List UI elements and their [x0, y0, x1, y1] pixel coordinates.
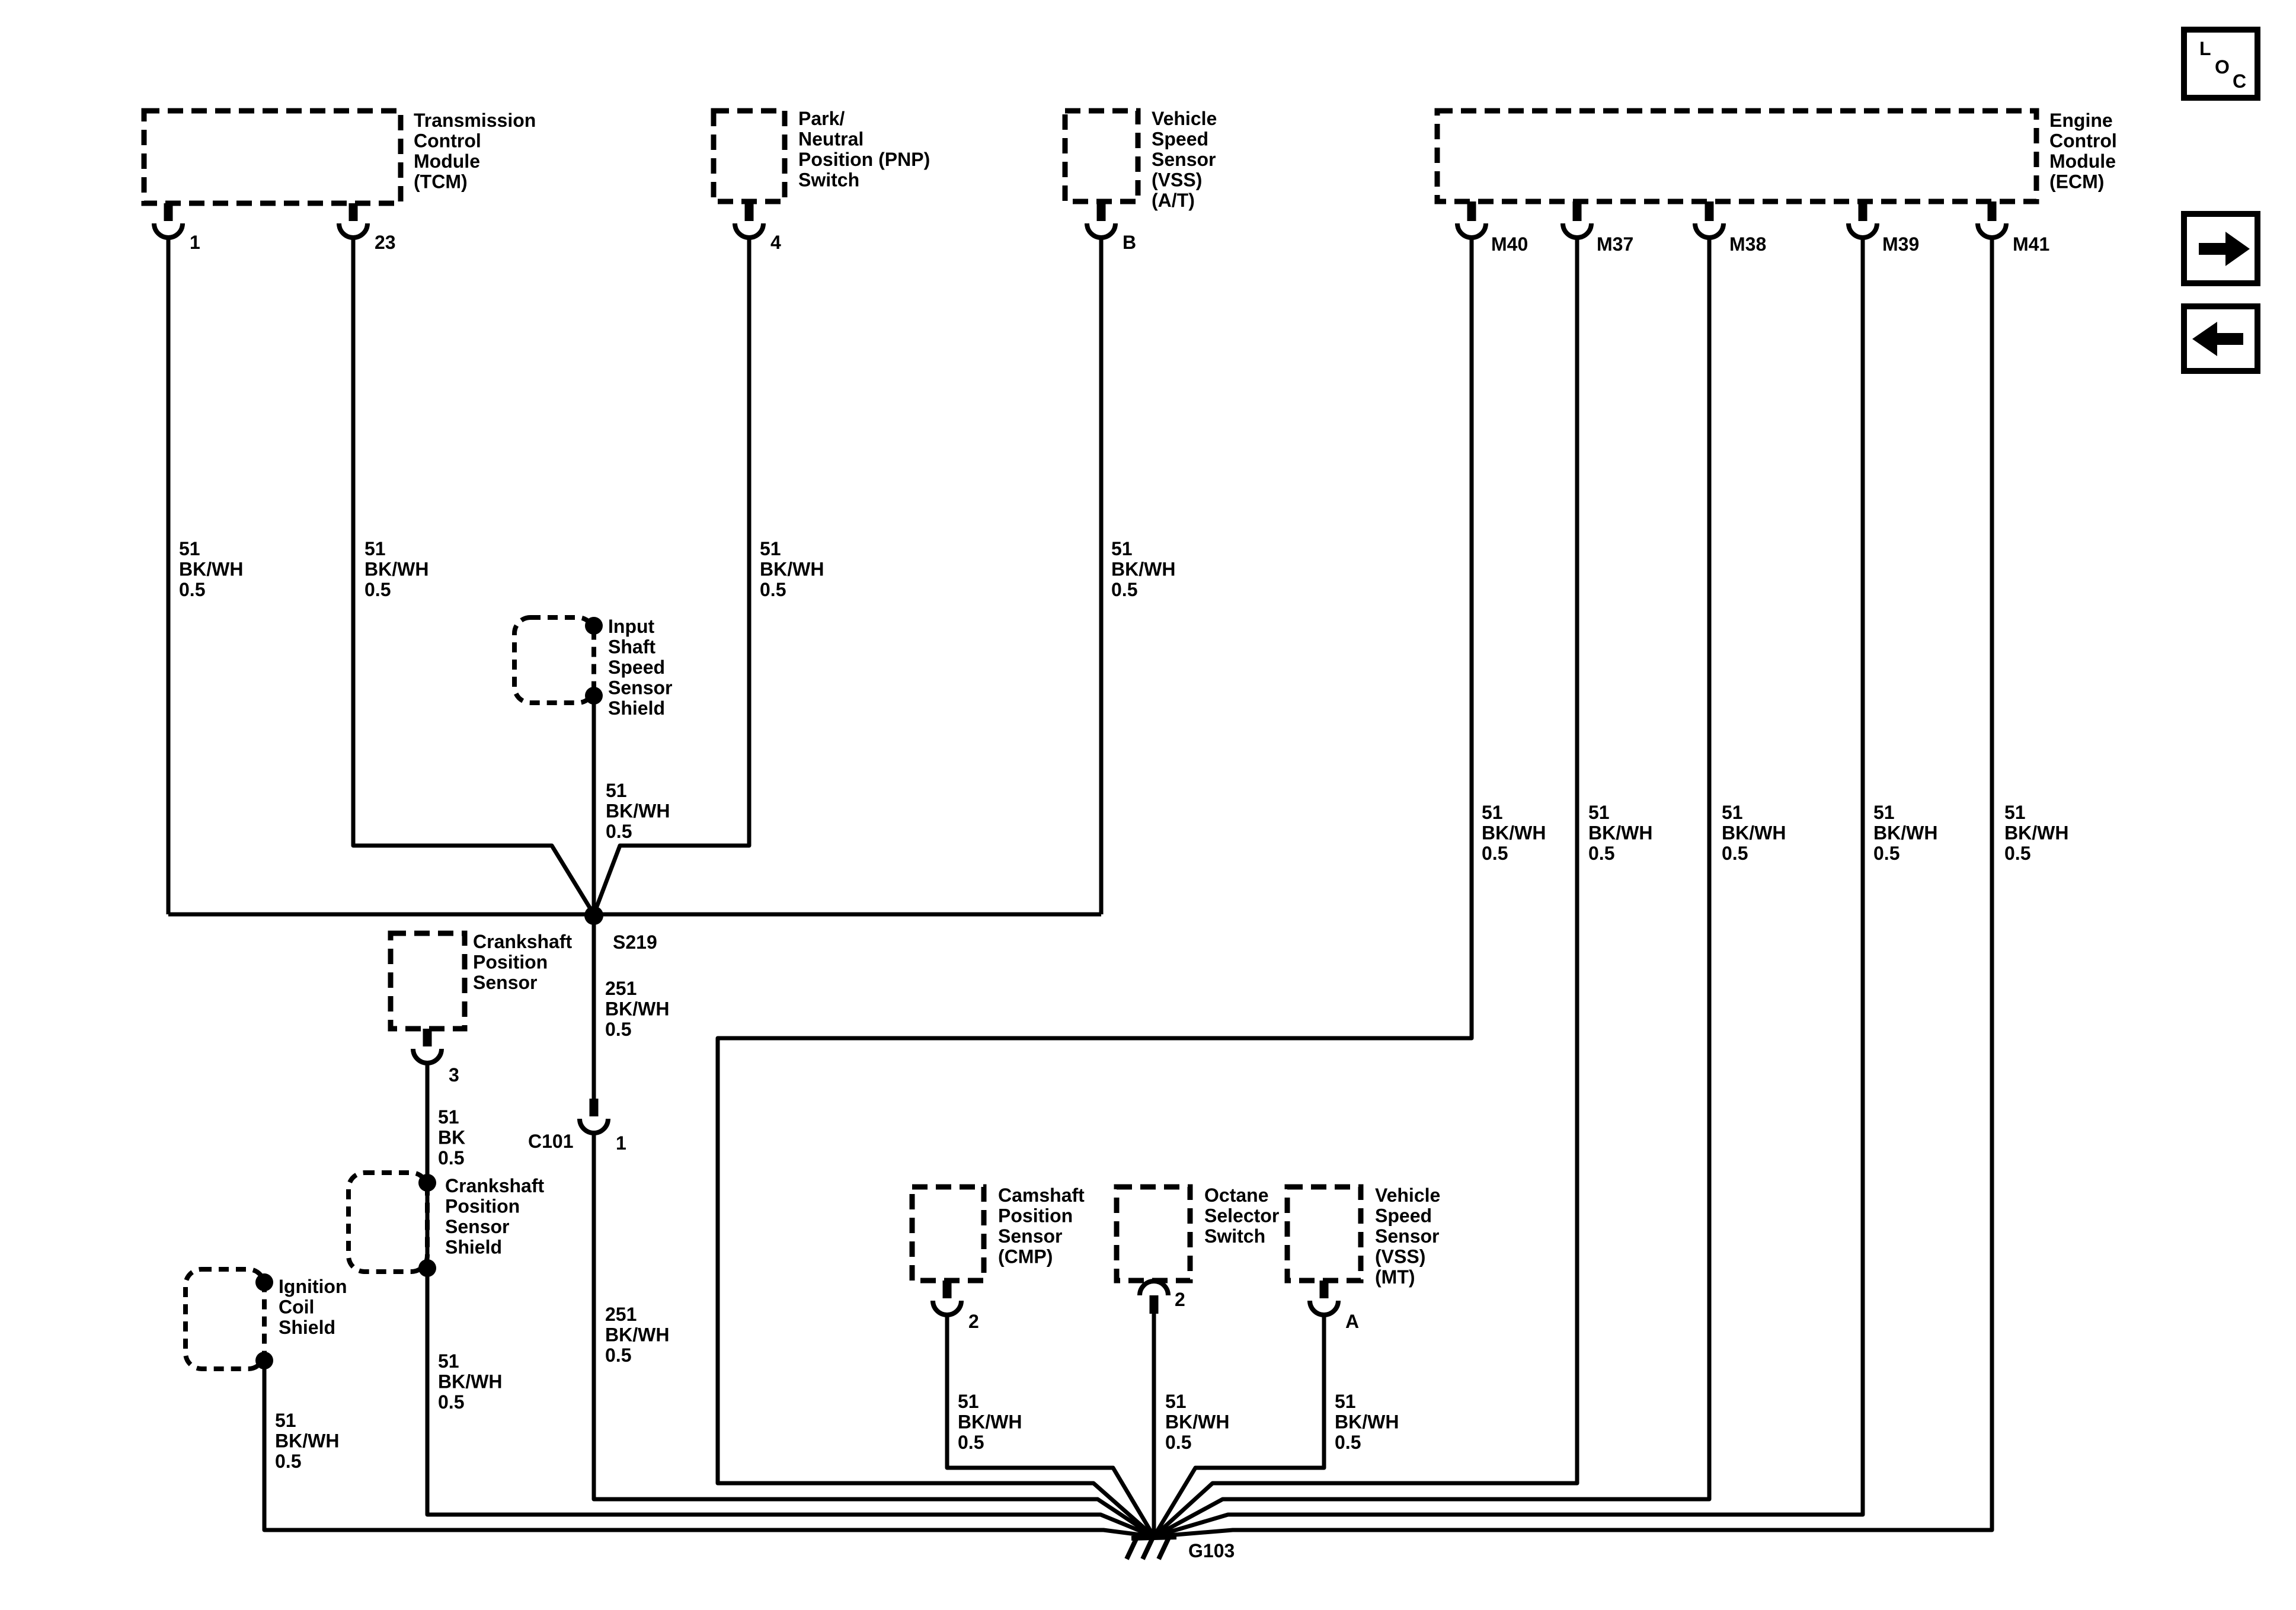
legend left-arrow box: [2184, 306, 2257, 371]
legend LOC box: [2184, 30, 2257, 98]
connector pin 2 of octane selector switch (inverted cup): [1140, 1281, 1185, 1314]
node dot top of ignition coil shield: [255, 1273, 273, 1291]
wire ECM pin M40 to ground bus (long route): [718, 236, 1472, 1537]
svg-text:23: 23: [375, 232, 396, 253]
svg-text:C101: C101: [528, 1131, 574, 1152]
connector pin M37 of ECM: [1563, 201, 1633, 255]
connector pin 1 of TCM: [154, 203, 200, 253]
wire crankshaft sensor pin 3 to ground bus: [427, 1062, 1154, 1537]
wire VSS (MT) pin A to ground bus: [1154, 1314, 1324, 1537]
module U1 Transmission Control Module (TCM) dashed box: [144, 111, 401, 203]
connector pin M40 of ECM: [1457, 201, 1528, 255]
svg-text:B: B: [1123, 232, 1136, 253]
ground G103 symbol: [1127, 1537, 1176, 1559]
svg-text:2: 2: [1175, 1289, 1185, 1310]
node dot bottom of ignition coil shield: [255, 1352, 273, 1369]
wire C101 to ground bus: [594, 1132, 1154, 1537]
wire CMP pin 2 to ground bus: [947, 1314, 1154, 1537]
node dot bottom of input shaft shield: [585, 687, 603, 705]
wire ECM pin M38 to ground bus: [1154, 236, 1709, 1537]
svg-text:O: O: [2215, 56, 2230, 78]
module U2 Engine Control Module (ECM) dashed box: [1437, 111, 2036, 201]
sensor B3 Camshaft Position Sensor (CMP) dashed box: [912, 1187, 984, 1281]
svg-text:M39: M39: [1882, 233, 1919, 255]
svg-text:4: 4: [770, 232, 781, 253]
connector pin M39 of ECM: [1849, 201, 1919, 255]
svg-text:1: 1: [190, 232, 200, 253]
wire octane selector switch to G103: [1152, 1314, 1156, 1537]
node dot top of crankshaft shield: [418, 1174, 436, 1192]
svg-text:M37: M37: [1597, 233, 1633, 255]
shield Input Shaft Speed Sensor Shield (dashed): [514, 617, 594, 703]
shield Ignition Coil Shield (dashed): [186, 1269, 264, 1369]
shield Crankshaft Position Sensor Shield (dashed): [348, 1173, 427, 1272]
svg-text:M41: M41: [2013, 233, 2049, 255]
connector pin A of VSS (MT): [1310, 1281, 1359, 1332]
connector pin M41 of ECM: [1978, 201, 2049, 255]
wire TCM pin 1 to S219 bus: [167, 236, 171, 914]
node dot bottom of crankshaft shield: [418, 1259, 436, 1277]
svg-text:S219: S219: [613, 932, 657, 953]
svg-text:A: A: [1345, 1311, 1359, 1332]
svg-text:2: 2: [968, 1311, 979, 1332]
sensor B2 Crankshaft Position Sensor dashed box: [391, 933, 465, 1029]
sensor B4 Vehicle Speed Sensor (VSS) (MT) dashed box: [1287, 1187, 1361, 1281]
splice S219 junction dot: [584, 906, 603, 925]
wire PNP pin 4 to S219: [594, 236, 749, 914]
svg-text:3: 3: [449, 1064, 459, 1086]
connector pin 2 of CMP: [933, 1281, 979, 1332]
node dot top of input shaft shield: [585, 617, 603, 635]
connector C101 pin 1: [580, 1099, 608, 1133]
wire ECM pin M39 to ground bus: [1154, 236, 1863, 1537]
connector pin B of VSS (A/T): [1087, 201, 1136, 253]
connector pin 4 of PNP switch: [735, 201, 781, 253]
svg-text:1: 1: [616, 1132, 626, 1154]
switch S1 Park/Neutral Position (PNP) Switch dashed box: [714, 111, 785, 201]
svg-text:M40: M40: [1491, 233, 1528, 255]
svg-text:M38: M38: [1729, 233, 1766, 255]
connector pin M38 of ECM: [1695, 201, 1766, 255]
wire VSS (A/T) pin B down to S219 bus: [1099, 236, 1104, 914]
sensor B1 Vehicle Speed Sensor (VSS) (A/T) dashed box: [1065, 111, 1138, 201]
connector pin 3 of crankshaft position sensor: [413, 1029, 459, 1086]
wire ECM pin M37 to ground bus: [1154, 236, 1577, 1537]
legend right-arrow box: [2184, 214, 2257, 283]
switch S2 Octane Selector Switch dashed box: [1117, 1187, 1190, 1281]
wire input shaft shield to S219: [592, 696, 596, 914]
svg-text:L: L: [2199, 38, 2211, 59]
svg-text:C: C: [2233, 71, 2246, 92]
svg-text:G103: G103: [1188, 1540, 1235, 1561]
wire S219 down to C101: [592, 914, 596, 1099]
wire S219 horizontal bus: [168, 913, 1101, 917]
wire ECM pin M41 to ground bus: [1154, 236, 1992, 1537]
wire ignition coil shield to ground bus: [264, 1361, 1154, 1537]
wire TCM pin 23 to S219: [353, 236, 594, 914]
connector pin 23 of TCM: [339, 203, 396, 253]
